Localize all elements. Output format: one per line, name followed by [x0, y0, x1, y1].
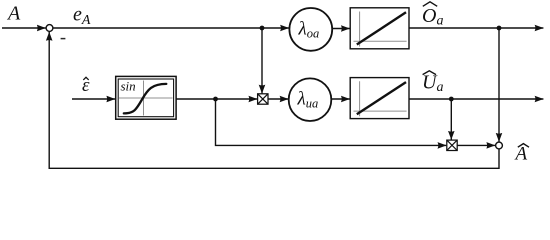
- minus sign: [61, 38, 66, 40]
- gain block G1: [350, 8, 409, 49]
- wire: J3 down and right to multiplier M2: [216, 100, 447, 145]
- node O_a output label: [422, 2, 443, 29]
- svg-text:Oa: Oa: [422, 5, 443, 29]
- junction dot J2: [497, 26, 502, 31]
- multiplier M1: [258, 94, 268, 104]
- wire: A input to summing junction S1: [2, 27, 46, 29]
- svg-text:A: A: [514, 144, 528, 165]
- svg-text:A: A: [6, 3, 21, 25]
- svg-text:eA: eA: [73, 4, 91, 29]
- wire: S1 to lambda_oa: [53, 27, 289, 29]
- wire: epsilon input to sin block: [72, 98, 115, 100]
- wire: J4 down to multiplier M2: [450, 100, 452, 140]
- wire: J2 down to output adder A2: [498, 29, 500, 142]
- node U_a output label: [422, 71, 443, 95]
- wire: sin block to junction J3: [176, 98, 216, 100]
- op-amp block lambda_ua U3: [289, 78, 332, 121]
- wire: feedback from A2 to S1: [49, 32, 499, 168]
- sin block U2: [116, 76, 176, 119]
- wire: J3 to multiplier M1: [216, 98, 258, 100]
- gain block G2: [350, 78, 409, 119]
- wire: lambda_ua to gain block G2: [331, 98, 349, 100]
- node A_hat output label: [514, 144, 530, 165]
- summing junction S1: [46, 25, 53, 32]
- summing junction A2: [496, 142, 503, 149]
- wire: G1 output to O_a: [409, 27, 543, 29]
- wire: M2 to adder A2: [457, 144, 495, 146]
- junction dot J3: [213, 97, 218, 102]
- wire: lambda_oa to gain block G1: [332, 28, 350, 30]
- wire: G2 output to U_a: [409, 98, 543, 100]
- junction dot J1: [260, 26, 265, 31]
- wire: J1 down to multiplier M1: [261, 29, 263, 93]
- svg-text:sin: sin: [121, 79, 136, 94]
- wire: M1 to lambda_ua: [268, 98, 288, 100]
- multiplier M2: [447, 140, 457, 150]
- node epsilon-hat input label: [82, 75, 90, 96]
- junction dot J4: [449, 97, 454, 102]
- svg-text:Ua: Ua: [422, 72, 443, 96]
- op-amp block lambda_oa U1: [289, 8, 332, 51]
